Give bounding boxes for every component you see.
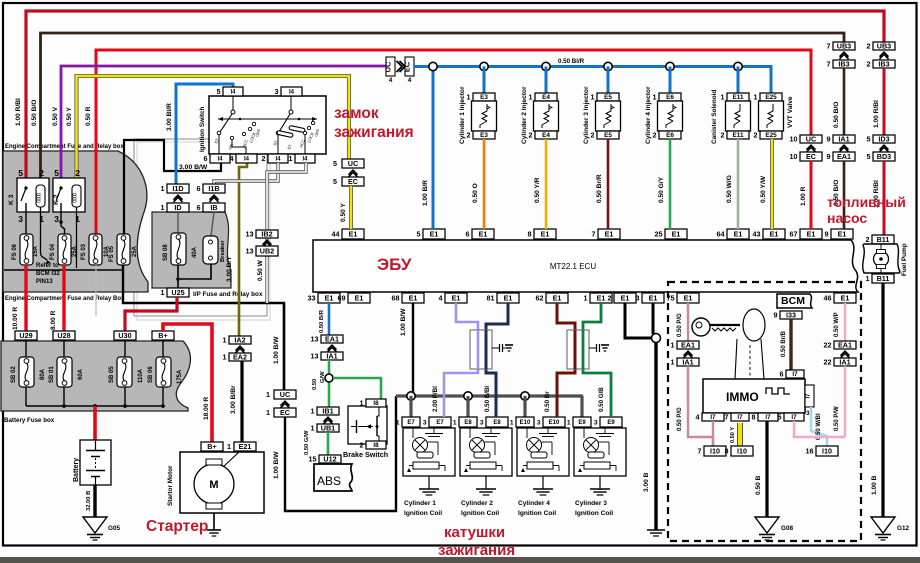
svg-text:13: 13 xyxy=(311,351,319,360)
svg-text:I4: I4 xyxy=(275,157,281,163)
fuse FS03 10A xyxy=(89,234,102,265)
svg-text:I10: I10 xyxy=(737,446,747,455)
svg-text:G08: G08 xyxy=(781,525,794,532)
svg-text:2: 2 xyxy=(467,130,471,139)
svg-text:IB: IB xyxy=(210,203,217,212)
svg-text:FS 04: FS 04 xyxy=(50,243,56,260)
injector cylinder 4 junction xyxy=(666,62,674,70)
svg-text:1: 1 xyxy=(671,357,675,366)
wire 1.00 B/W to UC-1 xyxy=(283,303,285,390)
svg-text:I4: I4 xyxy=(217,157,223,163)
svg-text:0.50 W: 0.50 W xyxy=(257,259,264,281)
connector E1 pin 2 (ECU bottom) xyxy=(614,293,636,303)
connector UC pin 1 xyxy=(274,390,296,399)
wire 0.50 B/O (top rail) xyxy=(41,33,845,185)
svg-text:5: 5 xyxy=(333,177,337,186)
svg-text:8: 8 xyxy=(752,412,756,421)
wire 0.50 B/Bl ECU pin81 to coil2 pin3 xyxy=(486,303,508,417)
ignition coil ground bus xyxy=(396,394,583,397)
svg-text:G05: G05 xyxy=(108,525,121,532)
svg-text:6: 6 xyxy=(780,369,784,378)
svg-text:0000: 0000 xyxy=(37,193,43,203)
svg-text:E1: E1 xyxy=(409,293,418,302)
svg-text:EC: EC xyxy=(280,408,290,417)
svg-text:13: 13 xyxy=(311,334,319,343)
wire I7-4 to I10-7 (P/G) xyxy=(712,421,714,446)
svg-text:E1: E1 xyxy=(807,229,816,238)
svg-text:3: 3 xyxy=(480,419,484,426)
svg-text:0.50 Y: 0.50 Y xyxy=(730,427,736,443)
fuse SB01 60A xyxy=(57,357,72,387)
I/P fuse and relay outer enclosure xyxy=(134,139,267,316)
wire IB to breaker xyxy=(211,212,214,236)
svg-text:I4: I4 xyxy=(230,90,236,96)
svg-text:Refer to: Refer to xyxy=(36,263,59,269)
wire 0.50 R / 1.00 R (top rail) xyxy=(96,50,811,234)
connector U29 xyxy=(15,331,37,340)
connector I4 pin 6 (bottom) xyxy=(210,154,230,163)
svg-text:1: 1 xyxy=(671,340,675,349)
svg-text:E11: E11 xyxy=(732,94,743,101)
svg-text:1.00 B/W: 1.00 B/W xyxy=(273,336,280,364)
svg-text:1: 1 xyxy=(467,92,471,101)
wire 0.50 B/O EA1 to ECU pin 9 xyxy=(843,161,846,229)
svg-text:E6: E6 xyxy=(666,94,674,101)
svg-text:3: 3 xyxy=(275,87,279,96)
svg-text:60A: 60A xyxy=(78,368,84,380)
connector I1B pin 6 xyxy=(203,184,225,193)
svg-text:6: 6 xyxy=(466,229,470,238)
connector E21 pin 1 xyxy=(234,442,256,451)
wire FS05 to UC-1 (black return) xyxy=(123,265,284,390)
inline arrow ID3-BD3 xyxy=(880,145,889,150)
svg-text:Ignition Coil: Ignition Coil xyxy=(404,510,442,517)
svg-text:Ignition Switch: Ignition Switch xyxy=(199,106,206,152)
connector I4 pin 1 (bottom) xyxy=(295,154,315,163)
svg-text:1: 1 xyxy=(721,92,725,101)
connector E1 pin 4 (ECU bottom) xyxy=(445,293,467,303)
svg-text:E1: E1 xyxy=(672,229,681,238)
connector E1 pin 33 (ECU bottom) xyxy=(318,293,340,303)
canister solenoid (E11) xyxy=(727,93,749,101)
svg-text:0.50 P/G: 0.50 P/G xyxy=(677,313,683,337)
svg-text:U29: U29 xyxy=(19,331,32,340)
svg-text:2: 2 xyxy=(866,235,870,244)
connector I1D pin 1 xyxy=(167,184,189,193)
svg-text:насос: насос xyxy=(827,210,867,226)
Battery Fuse box enclosure xyxy=(1,341,190,411)
svg-text:3.00 Bl/R: 3.00 Bl/R xyxy=(166,103,173,131)
svg-text:3.00 B/W: 3.00 B/W xyxy=(179,164,208,171)
wire fuse FS06 down to U29 (10.00 R) xyxy=(24,265,27,331)
svg-text:UC: UC xyxy=(348,159,358,168)
svg-text:1: 1 xyxy=(754,92,758,101)
svg-text:I7: I7 xyxy=(737,414,743,421)
connector ID pin 1 xyxy=(167,203,189,212)
connector IB3 pin 7 xyxy=(833,60,855,68)
svg-text:Cylinder 1: Cylinder 1 xyxy=(404,500,436,507)
connector UB3 pin 7 xyxy=(833,42,855,50)
svg-text:I1B: I1B xyxy=(208,184,219,193)
svg-text:6: 6 xyxy=(197,203,201,212)
inline arrow EA1-IA1 pin22 xyxy=(841,351,850,356)
connector E1 pin 5 (ECU top) xyxy=(423,229,445,239)
svg-text:E21: E21 xyxy=(239,442,252,451)
svg-text:5: 5 xyxy=(778,412,782,421)
wire fuse FS04 down to U28 (8.00 R) xyxy=(62,265,65,331)
inline arrow IB3-UB3 (2) xyxy=(880,52,889,57)
svg-text:FS 06: FS 06 xyxy=(12,243,18,260)
inline arrow IA1-EA1 pin9 xyxy=(840,145,849,150)
svg-text:E1: E1 xyxy=(841,293,850,302)
svg-text:2: 2 xyxy=(653,130,657,139)
connector I7 pin 7 xyxy=(731,413,749,421)
svg-text:7: 7 xyxy=(725,412,729,421)
brake switch box xyxy=(348,406,387,444)
svg-text:EA1: EA1 xyxy=(325,334,339,343)
svg-text:3.00 B/Br: 3.00 B/Br xyxy=(230,385,237,414)
fuse FS05 25A xyxy=(117,234,130,265)
I/P Fuse and Relay box (gray) xyxy=(152,212,231,288)
svg-text:Cylinder 4: Cylinder 4 xyxy=(518,500,550,507)
svg-text:E1: E1 xyxy=(430,229,439,238)
ground G08 xyxy=(755,517,779,533)
svg-text:1: 1 xyxy=(75,214,80,224)
svg-text:E9: E9 xyxy=(607,420,615,426)
inline arrow EA1-IA1 pin1 xyxy=(684,351,693,356)
svg-text:I7: I7 xyxy=(765,414,771,421)
connector I8 pin 2 xyxy=(366,441,386,449)
svg-text:BCM: BCM xyxy=(781,295,805,307)
svg-text:1.00 R/BI: 1.00 R/BI xyxy=(873,100,880,128)
connector E1 pin 6 (ECU top) xyxy=(472,229,494,239)
connector IA1 pin 22 xyxy=(834,358,856,366)
wire bus stub to injector 3 xyxy=(607,67,610,94)
IMMO box xyxy=(703,379,805,413)
svg-text:8: 8 xyxy=(725,446,729,455)
ignition coil cylinder 4 connectors xyxy=(516,417,534,427)
wire bus stub to canister solenoid xyxy=(737,67,740,94)
svg-text:I7: I7 xyxy=(710,414,716,421)
svg-text:1: 1 xyxy=(567,419,571,426)
svg-text:7: 7 xyxy=(698,446,702,455)
svg-text:10: 10 xyxy=(790,152,798,161)
svg-text:1.00 B/W: 1.00 B/W xyxy=(273,451,280,479)
fuse SB02 80A xyxy=(19,357,34,387)
wire VVT to ECU pin 43 xyxy=(770,139,774,229)
svg-text:4: 4 xyxy=(389,77,393,84)
svg-text:I8: I8 xyxy=(373,442,379,449)
svg-text:I33: I33 xyxy=(786,310,796,319)
svg-text:0.50 Y/R: 0.50 Y/R xyxy=(534,177,541,203)
svg-text:Стартер: Стартер xyxy=(146,518,208,535)
svg-text:U30: U30 xyxy=(118,331,131,340)
connector EC pin 10 xyxy=(800,152,822,161)
wire 1.00 B/R to ECU pin 5 xyxy=(432,66,435,229)
wire 0.50 Br ECU pin62 to coil3 pin3 xyxy=(557,303,575,417)
svg-text:5: 5 xyxy=(867,152,871,161)
svg-text:топливный: топливный xyxy=(827,194,906,210)
svg-text:0.50 B/O: 0.50 B/O xyxy=(833,102,840,128)
svg-text:64: 64 xyxy=(717,229,725,238)
svg-text:175A: 175A xyxy=(177,369,183,384)
svg-text:15: 15 xyxy=(309,454,317,463)
svg-text:Battery Fuse box: Battery Fuse box xyxy=(4,417,55,424)
ignition coil cylinder 2 connectors xyxy=(459,417,477,427)
wire 0.50 V to UC-4 xyxy=(61,66,386,188)
connector IA2 pin 1 xyxy=(229,336,251,344)
wire 3.00 B down to ground xyxy=(654,342,657,530)
svg-text:0.50 G/Y: 0.50 G/Y xyxy=(658,176,665,203)
svg-text:E1: E1 xyxy=(684,293,693,302)
connector I8 pin 1 xyxy=(366,399,386,407)
svg-text:FS 05: FS 05 xyxy=(109,245,115,262)
svg-text:1: 1 xyxy=(866,274,870,283)
connector EA1 pin 22 xyxy=(834,341,856,349)
wire ECU pin3 to ground junction xyxy=(652,303,655,334)
connector B11 pin 2 xyxy=(872,235,894,244)
noise condenser 2 xyxy=(567,330,589,369)
connector I4 pin 3 (top) xyxy=(281,87,302,96)
svg-text:0.50 Y/W: 0.50 Y/W xyxy=(760,175,767,203)
connector I10 pin 16 xyxy=(816,446,838,456)
connector I10 pin 8 xyxy=(731,446,753,456)
svg-text:MT22.1 ECU: MT22.1 ECU xyxy=(550,262,596,271)
coil bus junction cylinder 1 xyxy=(407,392,415,400)
svg-text:3: 3 xyxy=(54,214,59,224)
starter motor box xyxy=(180,452,264,513)
svg-text:I1D: I1D xyxy=(172,184,183,193)
connector E1 pin 81 (ECU bottom) xyxy=(497,293,519,303)
svg-text:EA1: EA1 xyxy=(837,152,851,161)
inline arrow IA2-EA2 xyxy=(236,346,245,351)
svg-text:E10: E10 xyxy=(520,420,531,426)
wire bus stub to injector 4 xyxy=(669,67,672,94)
svg-text:IA1: IA1 xyxy=(682,357,693,366)
svg-text:25: 25 xyxy=(655,229,663,238)
injector cylinder 1 junction xyxy=(480,62,488,70)
svg-text:1: 1 xyxy=(266,408,270,417)
wire ID to fuse SB08 xyxy=(177,212,179,233)
svg-text:IB3: IB3 xyxy=(878,59,889,68)
svg-text:U28: U28 xyxy=(57,331,70,340)
svg-text:0.50 O: 0.50 O xyxy=(472,183,479,203)
junction on injector bus at ECU drop xyxy=(429,62,437,70)
connector I7 pin 6 xyxy=(786,370,804,378)
wire bus stub to coil 1 pin1 xyxy=(409,396,412,417)
svg-text:0.50 W/P: 0.50 W/P xyxy=(834,312,840,337)
svg-text:3: 3 xyxy=(806,410,810,417)
svg-text:катушки: катушки xyxy=(444,524,505,541)
svg-text:0.50 B: 0.50 B xyxy=(755,475,762,495)
wire 1.00 B fuel pump to G12 xyxy=(881,283,884,517)
ignition coil cylinder 1 connectors xyxy=(402,417,420,427)
junction brake switch branch xyxy=(325,374,333,382)
svg-text:0.50: 0.50 xyxy=(312,379,318,390)
wire 32.00 B battery to ground xyxy=(93,485,96,517)
wire 0.50 B/R ECU pin33 to EA1-13 xyxy=(328,303,331,335)
connector E1 pin 7 (ECU top) xyxy=(598,229,620,239)
wire canister to ECU pin 64 xyxy=(737,139,740,229)
svg-text:E11: E11 xyxy=(732,132,743,139)
connector EA1 pin 13 xyxy=(321,335,343,343)
svg-text:E4: E4 xyxy=(542,132,550,139)
svg-text:0.50 V: 0.50 V xyxy=(52,106,59,126)
coil 1 ground xyxy=(428,476,430,489)
svg-text:B+: B+ xyxy=(158,331,167,340)
svg-text:1: 1 xyxy=(653,92,657,101)
svg-text:E5: E5 xyxy=(604,94,612,101)
svg-text:E1: E1 xyxy=(504,293,513,302)
svg-text:22: 22 xyxy=(824,357,832,366)
noise condenser 1 xyxy=(470,330,492,369)
wire 3.00 B/Br EA2 to E21 xyxy=(240,361,243,442)
ignition coil cylinder 3 xyxy=(574,428,626,476)
svg-text:E1: E1 xyxy=(770,229,779,238)
svg-text:E1: E1 xyxy=(734,229,743,238)
connector UB3 pin 2 xyxy=(873,42,895,50)
svg-text:замок: замок xyxy=(334,105,379,122)
svg-text:9: 9 xyxy=(825,229,829,238)
svg-text:1: 1 xyxy=(360,398,364,407)
svg-text:33: 33 xyxy=(308,293,316,302)
svg-text:IMMO: IMMO xyxy=(726,390,759,404)
wire K3 pin1 refer-to stub xyxy=(41,207,48,260)
fuse FS04 25A xyxy=(58,234,71,265)
fuse FS06 15A xyxy=(20,234,33,265)
svg-text:B11: B11 xyxy=(877,235,890,244)
svg-text:UC: UC xyxy=(806,134,816,143)
svg-text:0.50 Br: 0.50 Br xyxy=(544,391,551,412)
wire 1.00 R/BI from battery feed (top rail) xyxy=(26,11,884,188)
svg-text:K 3: K 3 xyxy=(8,194,15,205)
Engine Compartment Fuse and Relay box enclosure xyxy=(3,151,148,292)
injector cylinder 3 junction xyxy=(604,62,612,70)
connector U12 pin 15 xyxy=(319,455,341,463)
svg-text:1: 1 xyxy=(223,335,227,344)
ignition switch internals xyxy=(232,96,234,111)
connector E1 pin 9 (ECU top) xyxy=(831,229,853,239)
svg-text:B+: B+ xyxy=(207,442,216,451)
svg-text:8: 8 xyxy=(528,229,532,238)
connector EA1 pin 9 xyxy=(833,152,855,161)
coil bus junction cylinder 4 xyxy=(521,392,529,400)
svg-text:EA2: EA2 xyxy=(233,352,247,361)
svg-text:0.50 B/Bl: 0.50 B/Bl xyxy=(484,386,491,412)
svg-text:Canister Solenoid: Canister Solenoid xyxy=(711,90,718,144)
svg-text:UC: UC xyxy=(384,61,393,72)
svg-text:2: 2 xyxy=(754,130,758,139)
svg-text:EA1: EA1 xyxy=(838,340,852,349)
coil 2 ground xyxy=(485,476,487,489)
svg-text:2: 2 xyxy=(529,130,533,139)
wire 0.50 Bl/R injector bus xyxy=(414,67,771,94)
svg-text:ID: ID xyxy=(174,203,181,212)
svg-text:80A: 80A xyxy=(40,368,46,380)
coil 4 ground xyxy=(542,476,544,489)
svg-text:40A: 40A xyxy=(192,246,198,258)
svg-text:E8: E8 xyxy=(493,420,501,426)
svg-text:1: 1 xyxy=(510,419,514,426)
svg-text:E1: E1 xyxy=(325,293,334,302)
svg-text:67: 67 xyxy=(790,229,798,238)
svg-text:1: 1 xyxy=(289,154,293,163)
connector E1 pin 44 (ECU top) xyxy=(342,229,364,239)
svg-text:0000: 0000 xyxy=(73,193,79,203)
wire bus stub to injector 2 xyxy=(545,67,548,94)
svg-text:G12: G12 xyxy=(897,525,910,532)
ground G05 xyxy=(83,517,107,533)
svg-text:4: 4 xyxy=(439,293,443,302)
canister solenoid junction xyxy=(734,62,742,70)
svg-text:0.50 B/O: 0.50 B/O xyxy=(31,100,38,126)
svg-text:25A: 25A xyxy=(72,245,78,257)
wire fuse FS03 stub down xyxy=(95,265,97,316)
wire 0.50 Br/B I33 to IMMO I7-6 xyxy=(789,319,792,370)
connector B+ (starter) xyxy=(201,442,223,451)
injector cylinder 4 (E6) xyxy=(659,93,681,101)
svg-text:U25: U25 xyxy=(171,288,184,297)
svg-text:2: 2 xyxy=(867,59,871,68)
connector E1 pin 62 (ECU bottom) xyxy=(546,293,568,303)
svg-text:E1: E1 xyxy=(452,293,461,302)
connector EC pin 4 (rotated) xyxy=(405,57,414,76)
svg-text:0.50 Br/R: 0.50 Br/R xyxy=(596,174,603,203)
svg-text:E4: E4 xyxy=(542,94,550,101)
svg-text:2: 2 xyxy=(360,440,364,449)
svg-text:SB 08: SB 08 xyxy=(163,244,169,261)
svg-text:Cylinder 2: Cylinder 2 xyxy=(461,500,493,507)
svg-text:зажигания: зажигания xyxy=(334,124,414,141)
svg-text:E6: E6 xyxy=(666,132,674,139)
wire 0.50 G/W UB1 to U12 xyxy=(327,432,330,455)
svg-text:IB1: IB1 xyxy=(322,406,333,415)
svg-text:1: 1 xyxy=(396,419,400,426)
wire 1.00 R EC10 to ECU pin 67 xyxy=(810,161,813,229)
svg-text:6: 6 xyxy=(204,154,208,163)
connector UB2 pin 13 xyxy=(256,246,278,256)
svg-text:Fuel Pump: Fuel Pump xyxy=(901,243,908,276)
wire 1.00 R/BI BD3 to B11 pin2 xyxy=(883,161,886,235)
connector E1 pin 64 (ECU top) xyxy=(727,229,749,239)
svg-text:5: 5 xyxy=(18,168,23,178)
relay K2 xyxy=(53,178,85,212)
connector I7 pin 4 xyxy=(702,413,724,421)
wire green branch to brake switch xyxy=(333,378,381,399)
inline arrow I1B-IB xyxy=(210,195,219,200)
wire 0.50 G/B ECU pin1 to coil4 pin3 xyxy=(583,303,611,417)
ignition switch box xyxy=(209,96,326,154)
wire bus stub to coil 3 pin1 xyxy=(580,396,583,417)
ABS box xyxy=(314,464,352,491)
svg-text:SB 02: SB 02 xyxy=(11,366,17,383)
svg-text:5: 5 xyxy=(54,168,59,178)
injector cylinder 1 (E3) xyxy=(473,93,495,101)
svg-text:PIN13: PIN13 xyxy=(36,279,53,285)
wire bus stub to injector 1 xyxy=(483,67,486,94)
inline arrow IB2-UB2 xyxy=(263,240,272,245)
connector U25 pin 1 xyxy=(167,288,189,297)
svg-text:E1: E1 xyxy=(649,293,658,302)
svg-text:1: 1 xyxy=(529,92,533,101)
svg-text:Cylinder 3: Cylinder 3 xyxy=(575,500,607,507)
svg-text:UB3: UB3 xyxy=(837,41,851,50)
ECU box MT22.1 xyxy=(313,240,858,292)
svg-text:IB3: IB3 xyxy=(838,59,849,68)
svg-text:E7: E7 xyxy=(436,420,444,426)
inline arrow UC-EC pin5 xyxy=(349,170,358,175)
connector E1 pin 75 (ECU bottom) xyxy=(677,293,699,303)
